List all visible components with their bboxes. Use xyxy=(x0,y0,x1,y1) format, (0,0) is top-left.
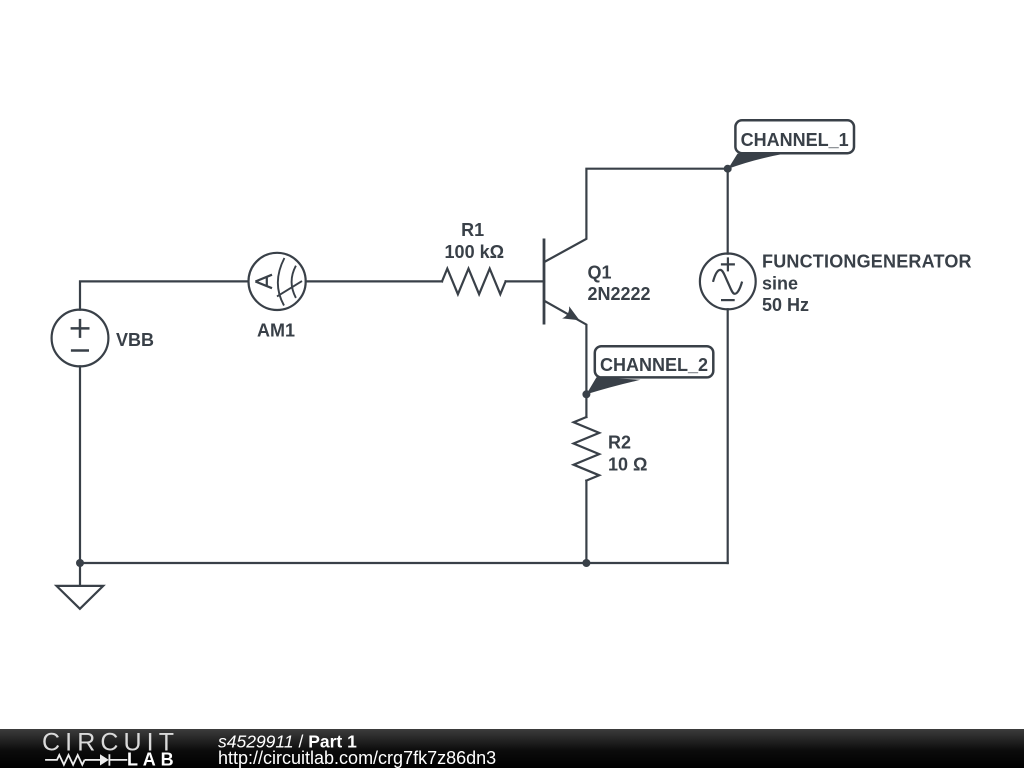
svg-text:AM1: AM1 xyxy=(257,320,295,340)
svg-text:100 kΩ: 100 kΩ xyxy=(445,242,504,262)
svg-text:CHANNEL_1: CHANNEL_1 xyxy=(741,130,849,150)
svg-text:50 Hz: 50 Hz xyxy=(762,295,809,315)
svg-text:2N2222: 2N2222 xyxy=(588,284,651,304)
svg-text:VBB: VBB xyxy=(116,330,154,350)
svg-text:LAB: LAB xyxy=(127,750,178,768)
svg-text:CHANNEL_2: CHANNEL_2 xyxy=(600,355,708,375)
svg-text:sine: sine xyxy=(762,273,798,293)
svg-text:FUNCTIONGENERATOR: FUNCTIONGENERATOR xyxy=(762,252,972,272)
svg-text:Q1: Q1 xyxy=(588,263,612,283)
svg-text:R1: R1 xyxy=(461,220,484,240)
svg-text:http://circuitlab.com/crg7fk7z: http://circuitlab.com/crg7fk7z86dn3 xyxy=(218,748,496,768)
svg-text:10 Ω: 10 Ω xyxy=(608,455,647,475)
svg-text:R2: R2 xyxy=(608,433,631,453)
